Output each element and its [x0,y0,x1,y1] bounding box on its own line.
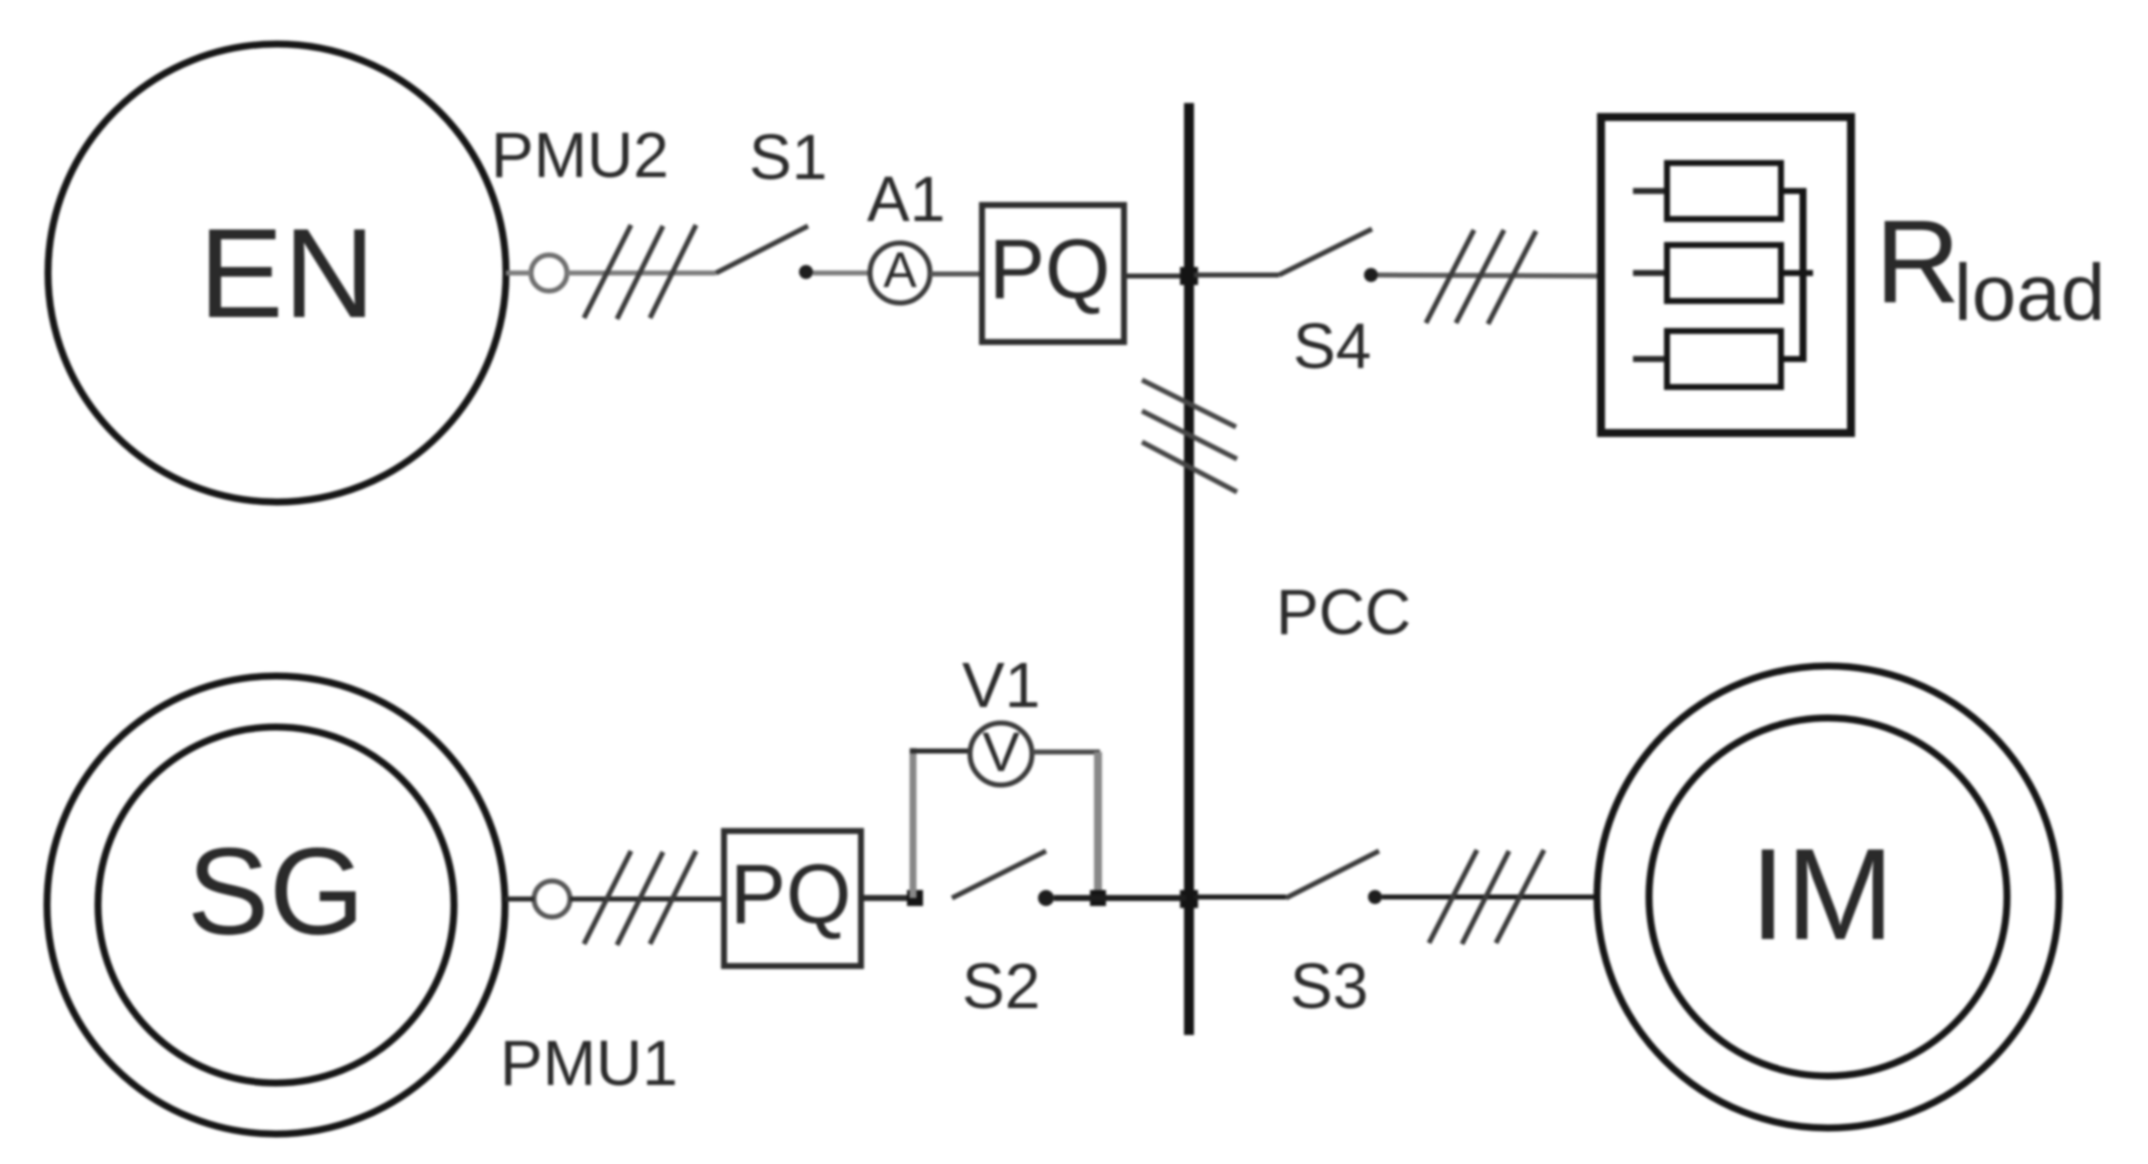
ammeter A1 (circle with A) [870,242,930,303]
bus PCC (vertical busbar) [1184,103,1194,1035]
neutral connector joining resistors [1800,188,1807,362]
svg-text:V: V [982,720,1020,783]
voltmeter branch top-right wire [1032,750,1100,755]
junction node on bus (top branch) [1180,267,1198,285]
three-phase slash marks on SG feeder [584,851,696,945]
voltmeter V1 (circle with V) [970,720,1032,785]
motor IM (double circle) [1597,666,2059,1128]
svg-text:R: R [1875,196,1960,328]
svg-text:PQ: PQ [989,222,1110,316]
three-phase slash marks on EN feeder [584,225,696,319]
svg-text:S3: S3 [1290,950,1368,1022]
svg-text:IM: IM [1750,821,1894,967]
switch S4 blade [1279,229,1372,275]
wire bus to switch S4 hinge [1194,273,1279,278]
resistor phase 2 (middle) [1633,245,1813,301]
switch S1 contact dot [799,265,813,279]
junction node on bus (bottom branch) [1180,890,1198,908]
svg-text:PQ: PQ [730,847,851,941]
label PMU2 [491,119,669,191]
label V1 [962,649,1040,721]
svg-text:V1: V1 [962,649,1040,721]
switch S3 blade [1286,851,1379,898]
svg-text:S2: S2 [962,950,1040,1022]
wire S2 to bus PCC [1054,895,1186,901]
junction node left of switch S2 [907,890,923,906]
switch S3 contact dot [1368,890,1382,904]
label PMU1 [500,1027,678,1099]
voltmeter branch left riser [910,748,917,898]
wire S4 contact to R_load [1378,275,1599,276]
resistor phase 1 (top) [1633,163,1806,219]
wire S1 contact to ammeter A1 [813,271,870,276]
voltmeter branch top-left wire [910,749,969,754]
label S1 [749,121,827,193]
svg-text:SG: SG [187,824,365,961]
label S4 [1293,310,1371,382]
wire terminal to PQ meter (bottom) [570,897,724,902]
label S2 [962,950,1040,1022]
svg-text:A1: A1 [867,163,945,235]
label A1 [867,163,945,235]
svg-text:A: A [883,242,917,298]
three-phase slash marks on bus PCC [1142,380,1237,492]
label R_load [1875,196,2105,337]
svg-text:load: load [1954,248,2105,337]
switch S1 blade [716,226,808,273]
terminal node at SG [534,881,570,917]
junction node at right riser [1090,890,1106,906]
wire S3 contact to IM [1382,895,1599,900]
svg-text:PMU1: PMU1 [500,1027,678,1099]
switch S2 contact dot [1038,890,1054,906]
three-phase slash marks on load feeder [1426,230,1536,324]
wire PQ box to V1 junction [861,895,907,901]
svg-text:EN: EN [199,202,375,344]
PQ meter box (top branch) [982,205,1124,342]
PQ meter box (bottom branch) [724,831,861,966]
switch S4 contact dot [1364,268,1378,282]
wire EN to terminal [506,271,531,276]
label S3 [1290,950,1368,1022]
wire ammeter to PQ meter (top) [930,272,982,277]
three-phase slash marks on IM feeder [1429,850,1544,944]
load block R_load outer box [1601,117,1851,433]
wire SG to terminal [505,897,534,902]
resistor phase 3 (bottom) [1633,331,1806,387]
wire bus to switch S3 hinge [1194,895,1286,900]
svg-text:S4: S4 [1293,310,1371,382]
svg-text:PCC: PCC [1276,576,1411,648]
wire terminal to switch S1 hinge [567,271,716,276]
voltmeter branch right riser [1094,752,1102,898]
svg-text:S1: S1 [749,121,827,193]
generator SG (double circle) [47,676,505,1134]
svg-text:PMU2: PMU2 [491,119,669,191]
wire PQ box to bus PCC (top) [1124,274,1186,279]
source EN (utility grid circle) [48,44,506,502]
switch S2 blade [952,851,1046,898]
label PCC [1276,576,1411,648]
terminal node at EN [531,255,567,291]
